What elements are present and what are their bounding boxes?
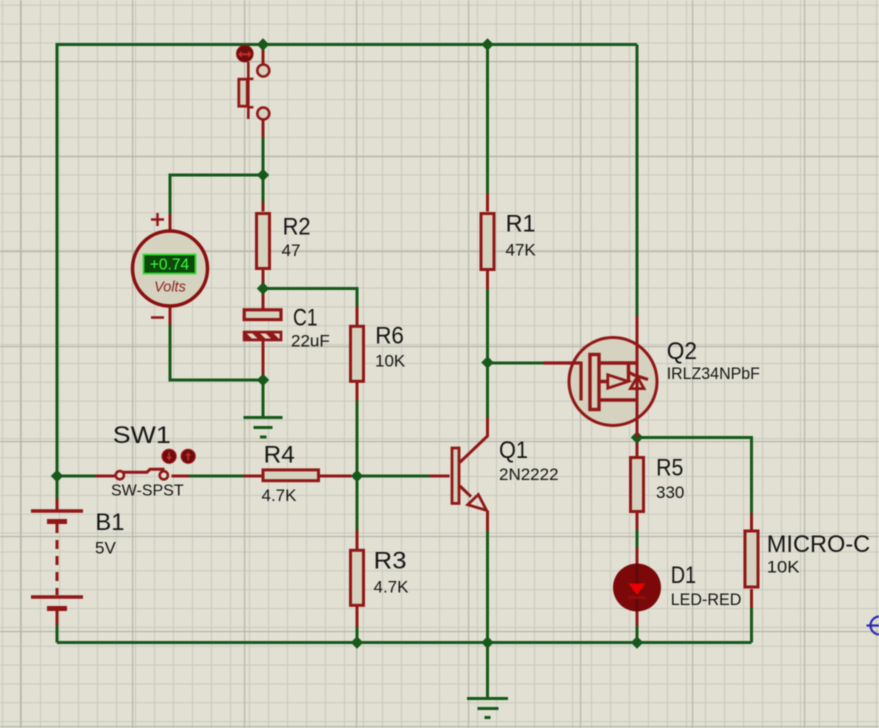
- mosfet Q2 channel arrow: [608, 375, 629, 388]
- resistor R6: [351, 326, 364, 381]
- resistor R1: [481, 214, 494, 270]
- svg-text:47: 47: [282, 241, 301, 260]
- wire R3 bottom to bottom rail: [356, 627, 359, 643]
- wire switch to R4: [189, 475, 244, 478]
- mosfet Q2 body: [569, 338, 657, 426]
- svg-text:R2: R2: [283, 214, 311, 241]
- pin battery bottom: [56, 611, 59, 626]
- junction node G: [631, 431, 643, 443]
- battery B1: [31, 511, 83, 609]
- pin pushbutton bottom: [262, 120, 265, 138]
- wire top rail to R1 top: [486, 43, 489, 194]
- pin Q1 emitter: [460, 486, 488, 531]
- junction node C: [351, 470, 363, 482]
- pin C1 top: [262, 289, 265, 310]
- switch SW1 actuator up: [181, 449, 195, 463]
- mosfet Q2 body diode: [628, 372, 649, 389]
- junction node E: [481, 356, 493, 368]
- switch SW1 actuator down: [162, 449, 176, 463]
- ground bottom: [467, 699, 508, 718]
- svg-text:C1: C1: [293, 305, 318, 332]
- pin R2 top: [262, 202, 265, 212]
- junction node top rail R1: [481, 38, 493, 50]
- svg-text:B1: B1: [95, 509, 124, 536]
- wire node B to R6 top: [263, 289, 357, 307]
- wire node E to Q2 gate: [488, 362, 544, 365]
- wire capacitor node to ground: [262, 380, 265, 416]
- pin voltmeter minus: [169, 306, 172, 326]
- pin R4 right: [320, 475, 352, 478]
- wire node C to R3 top: [356, 476, 359, 530]
- pin switch left: [96, 475, 115, 478]
- junction node A: [257, 169, 269, 181]
- transistor Q1 base bar: [452, 448, 459, 503]
- pin D1 top: [636, 548, 639, 565]
- wire top rail to Q2 drain: [636, 45, 639, 316]
- resistor R4: [263, 470, 319, 481]
- junction node bottom ground: [481, 636, 493, 648]
- transistor Q1 emitter arrow: [468, 495, 487, 511]
- junction node B: [257, 282, 269, 294]
- wire pushbutton to node A: [262, 138, 265, 176]
- pin switch right: [172, 475, 190, 478]
- resistor R2: [257, 214, 270, 269]
- wire Q1 collector to node E: [486, 363, 489, 418]
- svg-text:R1: R1: [506, 211, 536, 238]
- origin marker: [867, 617, 879, 635]
- junction node bottom R3: [351, 636, 363, 648]
- svg-text:10K: 10K: [375, 352, 406, 371]
- svg-text:Volts: Volts: [154, 280, 186, 296]
- wire MICRO-C bottom to bottom rail: [750, 607, 753, 643]
- pin D1 bottom: [636, 611, 639, 626]
- wire battery node to switch: [57, 475, 96, 478]
- svg-text:+0.74: +0.74: [150, 257, 190, 274]
- pin R2 bottom: [262, 270, 265, 289]
- pin MICRO-C bottom: [750, 589, 753, 607]
- pushbutton terminal bottom: [257, 108, 269, 120]
- wire R6 bottom to node C: [356, 401, 359, 477]
- svg-text:Q1: Q1: [499, 437, 528, 464]
- svg-text:47K: 47K: [506, 241, 537, 260]
- wire node A to R2: [262, 175, 265, 202]
- svg-text:5V: 5V: [95, 539, 116, 558]
- junction node bottom D1: [631, 636, 643, 648]
- pin voltmeter plus: [169, 214, 172, 232]
- resistor R5: [631, 458, 644, 512]
- pin R1 top: [486, 194, 489, 212]
- pushbutton actuator: [237, 46, 253, 62]
- wire Q1 emitter to bottom rail: [486, 531, 489, 643]
- pin R6 bottom: [356, 383, 359, 401]
- pin R3 top: [356, 530, 359, 549]
- pin R5 bottom: [636, 513, 639, 530]
- svg-text:330: 330: [656, 483, 684, 502]
- thermistor MICRO-C: [745, 531, 758, 587]
- mosfet Q2 gate plate: [590, 355, 599, 410]
- pin R1 bottom: [486, 271, 489, 290]
- svg-text:SW-SPST: SW-SPST: [111, 483, 184, 500]
- svg-text:4.7K: 4.7K: [262, 486, 298, 505]
- pin Q2 drain-source: [636, 316, 639, 438]
- switch SW1 lever: [123, 469, 165, 472]
- svg-text:R6: R6: [375, 323, 404, 350]
- wire node C to Q1 base: [357, 475, 430, 478]
- svg-text:Q2: Q2: [667, 338, 697, 365]
- wire bottom rail: [57, 641, 752, 644]
- voltmeter minus sign: [151, 316, 164, 319]
- mosfet Q2 channel stubs: [601, 363, 637, 400]
- capacitor C1: [244, 310, 281, 340]
- svg-text:R5: R5: [656, 455, 683, 482]
- wire R5 to D1: [636, 530, 639, 548]
- svg-text:MICRO-C: MICRO-C: [767, 531, 870, 558]
- pin pushbutton top: [262, 46, 265, 64]
- junction node capacitor-ground: [257, 374, 269, 386]
- pin Q1 collector: [460, 418, 488, 463]
- svg-text:2N2222: 2N2222: [499, 465, 559, 484]
- junction node top rail pushbutton: [257, 38, 269, 50]
- pin R4 left: [244, 475, 262, 478]
- pin R6 top: [356, 307, 359, 326]
- wire left rail: [56, 43, 59, 499]
- pin Q2 gate: [544, 362, 582, 401]
- wire R1 bottom to node E: [486, 290, 489, 363]
- svg-text:SW1: SW1: [113, 422, 171, 449]
- svg-text:R4: R4: [264, 442, 295, 469]
- wire voltmeter minus to capacitor node: [170, 325, 263, 380]
- LED D1: [613, 564, 661, 612]
- junction node battery-switch: [51, 470, 63, 482]
- svg-text:4.7K: 4.7K: [374, 578, 410, 597]
- wire node A to voltmeter plus: [170, 175, 263, 214]
- voltmeter body: [133, 231, 208, 306]
- svg-text:D1: D1: [671, 562, 696, 589]
- svg-text:LED-RED: LED-RED: [671, 590, 742, 609]
- wire emitter node to ground: [486, 643, 489, 698]
- pin battery top: [56, 499, 59, 510]
- svg-text:R3: R3: [374, 548, 407, 575]
- switch SW1 terminal left: [116, 471, 124, 479]
- pushbutton plunger: [239, 62, 254, 119]
- svg-text:22uF: 22uF: [291, 332, 330, 351]
- wire node G to MICRO-C top: [637, 438, 752, 514]
- resistor R3: [351, 550, 364, 605]
- wire D1 to bottom rail: [636, 626, 639, 643]
- pin R3 bottom: [356, 607, 359, 628]
- voltmeter LCD display: [144, 255, 196, 274]
- ground under capacitor: [244, 418, 283, 438]
- pin R5 top: [636, 438, 639, 457]
- switch SW1 terminal right: [160, 471, 168, 479]
- voltmeter plus sign: [151, 213, 164, 226]
- wire top rail: [57, 43, 637, 46]
- pushbutton terminal top: [257, 65, 269, 77]
- wire battery negative to bottom rail: [56, 625, 59, 643]
- pin MICRO-C top: [750, 513, 753, 530]
- pin Q1 base: [430, 475, 450, 478]
- svg-text:IRLZ34NPbF: IRLZ34NPbF: [667, 364, 760, 383]
- pin C1 bottom: [262, 341, 265, 380]
- svg-text:10K: 10K: [767, 557, 800, 576]
